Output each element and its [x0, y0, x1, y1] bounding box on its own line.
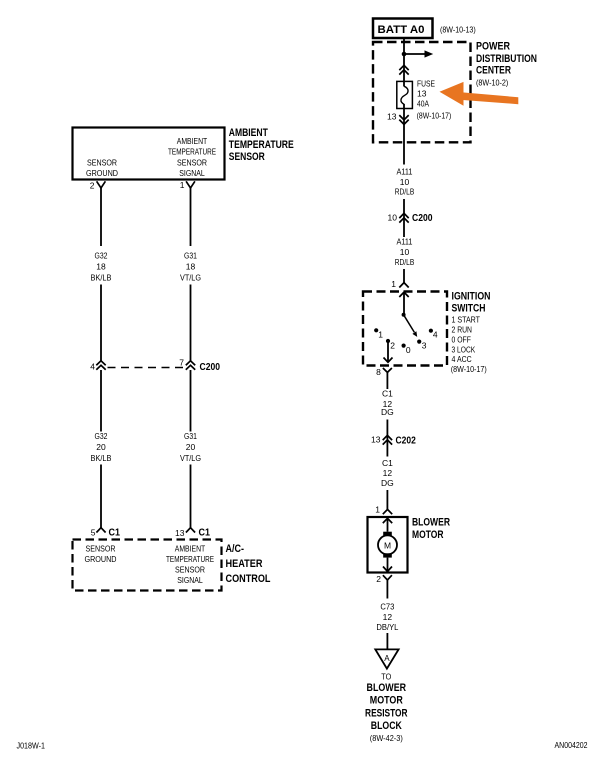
wire label C73 12 DB/YL: [376, 602, 398, 633]
wire G32 upper segment: [100, 188, 102, 246]
svg-text:CONTROL: CONTROL: [226, 573, 271, 585]
wire contact 2 to output with arrowhead: [384, 341, 393, 362]
svg-text:HEATER: HEATER: [226, 558, 263, 570]
svg-text:12: 12: [383, 612, 393, 622]
svg-text:AMBIENT: AMBIENT: [229, 127, 268, 139]
connector symbol pin 1: [186, 181, 195, 188]
svg-text:C73: C73: [380, 602, 394, 612]
connector chevron above blower box: [383, 509, 392, 514]
pin number 4: [90, 362, 95, 372]
node: switch pivot: [402, 313, 406, 317]
connector chevron above fuse: [399, 65, 408, 74]
svg-text:BK/LB: BK/LB: [91, 273, 112, 283]
pin number 13: [175, 528, 185, 538]
svg-text:SENSOR: SENSOR: [87, 158, 117, 168]
switch contact 2: [386, 339, 395, 351]
svg-text:BLOCK: BLOCK: [371, 720, 402, 732]
title: A/C- HEATER CONTROL: [226, 543, 271, 585]
connector chevron above ignition box: [399, 283, 408, 288]
svg-text:POWER: POWER: [476, 41, 510, 53]
svg-text:20: 20: [96, 442, 106, 452]
svg-text:2: 2: [390, 341, 395, 351]
svg-text:A: A: [384, 654, 390, 663]
pin label: SENSOR GROUND: [86, 158, 118, 179]
svg-text:2: 2: [90, 181, 95, 191]
wire label G31 20 VT/LG: [180, 431, 201, 463]
svg-text:1: 1: [375, 505, 380, 515]
svg-text:5: 5: [91, 528, 96, 538]
connector chevron below ignition box edge: [399, 292, 408, 297]
label: drawing number AN004202: [555, 740, 588, 750]
pin number 5: [91, 528, 96, 538]
wire label A111 10 RD/LB (lower): [395, 237, 415, 268]
wire G32 segment below C200: [100, 370, 102, 432]
switch contact 0: [402, 344, 411, 355]
switch contact 1: [374, 328, 383, 339]
svg-text:GROUND: GROUND: [85, 554, 117, 564]
pin number 8 (ignition output): [376, 367, 381, 377]
svg-text:SENSOR: SENSOR: [175, 565, 205, 575]
wire DG to C202: [386, 420, 388, 457]
svg-text:0 OFF: 0 OFF: [452, 334, 471, 344]
svg-text:10: 10: [400, 177, 410, 187]
wire branch arrow right: [404, 50, 433, 57]
svg-text:A111: A111: [397, 167, 413, 177]
pin number 7: [179, 358, 184, 368]
svg-text:RD/LB: RD/LB: [395, 257, 415, 267]
label C1 right: [199, 527, 211, 539]
svg-text:AMBIENT: AMBIENT: [175, 544, 206, 554]
svg-text:VT/LG: VT/LG: [180, 453, 201, 463]
svg-text:10: 10: [388, 213, 398, 223]
svg-text:TO: TO: [381, 672, 391, 682]
pin label: SENSOR GROUND (control): [85, 544, 117, 565]
svg-text:RESISTOR: RESISTOR: [365, 707, 408, 719]
fuse 13 40A: [397, 81, 413, 108]
svg-text:40A: 40A: [417, 99, 429, 109]
component dashed box: power distribution center: [373, 42, 471, 142]
label: switch positions list: [451, 315, 487, 374]
svg-text:BLOWER: BLOWER: [412, 517, 450, 529]
svg-text:2 RUN: 2 RUN: [452, 324, 473, 334]
svg-text:G31: G31: [184, 251, 197, 261]
connector C200 chevron right circuit: [399, 213, 408, 222]
svg-text:13: 13: [175, 528, 185, 538]
pin number 10: [388, 213, 398, 223]
connector chevron below fuse: [399, 115, 408, 124]
svg-text:13: 13: [417, 88, 427, 98]
node junction dot: [402, 52, 407, 57]
dashed connector line C200: [108, 367, 185, 369]
connector chevron inside blower box: [383, 518, 392, 523]
svg-text:DG: DG: [381, 407, 394, 417]
svg-text:CENTER: CENTER: [476, 65, 511, 77]
wire BATT to fuse: [403, 38, 405, 87]
svg-text:10: 10: [400, 247, 410, 257]
svg-text:1: 1: [180, 180, 185, 190]
wire DG to blower motor: [386, 490, 388, 509]
svg-text:FUSE: FUSE: [417, 79, 435, 89]
svg-text:A111: A111: [397, 237, 413, 247]
wire G31 segment below C200: [190, 370, 192, 432]
svg-text:G32: G32: [95, 251, 108, 261]
svg-text:4: 4: [433, 329, 438, 339]
svg-text:TEMPERATURE: TEMPERATURE: [166, 554, 214, 564]
wire ignition output to C1: [386, 372, 388, 389]
svg-text:SWITCH: SWITCH: [452, 302, 486, 314]
svg-text:20: 20: [186, 442, 196, 452]
svg-text:G32: G32: [95, 431, 108, 441]
title: IGNITION SWITCH: [452, 290, 491, 314]
wire motor to pin 2 with arrowhead: [383, 558, 392, 572]
svg-text:DG: DG: [381, 478, 394, 488]
motor M1 brush top: [383, 532, 392, 536]
wire G31 upper segment: [190, 188, 192, 246]
svg-text:TEMPERATURE: TEMPERATURE: [168, 147, 216, 157]
svg-text:VT/LG: VT/LG: [180, 273, 201, 283]
title: BLOWER MOTOR: [412, 517, 450, 542]
wire label A111 10 RD/LB (upper): [395, 167, 415, 197]
svg-text:RD/LB: RD/LB: [395, 187, 415, 197]
svg-text:GROUND: GROUND: [86, 168, 118, 178]
annotation: orange highlight arrow pointing at fuse: [440, 82, 519, 106]
svg-text:SIGNAL: SIGNAL: [179, 168, 205, 178]
label TO: [381, 672, 391, 682]
connector C1 chevron left: [96, 528, 105, 533]
label FUSE 13 40A (8W-10-17): [417, 79, 452, 121]
svg-text:(8W-10-17): (8W-10-17): [451, 364, 487, 374]
svg-text:18: 18: [96, 262, 106, 272]
label C200 left: [200, 361, 221, 373]
svg-text:G31: G31: [184, 431, 197, 441]
svg-text:C1: C1: [109, 527, 121, 539]
wire blower to C73: [386, 586, 388, 599]
wire RD/LB to C200: [403, 199, 405, 237]
connector symbol below ignition box: [383, 368, 392, 372]
svg-text:3: 3: [422, 341, 427, 351]
svg-text:C1: C1: [199, 527, 211, 539]
svg-text:8: 8: [376, 367, 381, 377]
wire G32 segment to AC control: [100, 465, 102, 528]
svg-text:AN004202: AN004202: [555, 740, 588, 750]
title: BLOWER MOTOR RESISTOR BLOCK: [365, 682, 408, 743]
svg-text:18: 18: [186, 262, 196, 272]
svg-text:1: 1: [378, 329, 383, 339]
svg-text:1: 1: [391, 279, 396, 289]
svg-text:M: M: [384, 540, 391, 550]
pin number 2: [90, 181, 95, 191]
svg-text:C1: C1: [382, 458, 393, 468]
wire G31 segment to AC control: [190, 465, 192, 528]
connector symbol pin 2: [97, 181, 106, 188]
label (8W-10-13): [440, 25, 476, 35]
svg-text:MOTOR: MOTOR: [412, 529, 444, 541]
wire label C1 12 DG (lower): [381, 458, 394, 488]
wire to motor brush: [387, 518, 389, 531]
svg-text:3 LOCK: 3 LOCK: [452, 344, 476, 354]
wire into switch: [403, 293, 405, 315]
svg-text:AMBIENT: AMBIENT: [177, 136, 208, 146]
component box: blower motor: [368, 517, 408, 573]
svg-text:J018W-1: J018W-1: [17, 741, 46, 751]
svg-text:13: 13: [371, 435, 381, 445]
svg-text:BATT A0: BATT A0: [378, 24, 425, 36]
svg-text:C202: C202: [396, 435, 416, 447]
svg-text:12: 12: [383, 468, 393, 478]
svg-text:C200: C200: [200, 361, 221, 373]
wire label G32 20 BK/LB: [91, 431, 112, 463]
pin number 1 (blower): [375, 505, 380, 515]
connector C202 chevron: [383, 435, 392, 444]
svg-text:SENSOR: SENSOR: [86, 544, 116, 554]
pin number 1 (ignition input): [391, 279, 396, 289]
wire label G31 18 VT/LG: [180, 251, 201, 283]
svg-text:4 ACC: 4 ACC: [452, 354, 472, 364]
wire G32 lower segment: [100, 285, 102, 362]
connector C200 chevron right: [186, 361, 195, 370]
node A: off-page triangle: [375, 649, 398, 668]
svg-text:DB/YL: DB/YL: [376, 622, 398, 632]
label C202: [396, 435, 416, 447]
svg-text:13: 13: [387, 112, 397, 122]
pin label: AMBIENT TEMPERATURE SENSOR SIGNAL (control): [166, 544, 214, 586]
svg-text:MOTOR: MOTOR: [370, 695, 403, 707]
switch wiper arm with arrowhead: [404, 315, 418, 337]
wire RD/LB to ignition switch: [403, 269, 405, 283]
svg-text:BK/LB: BK/LB: [91, 453, 112, 463]
svg-text:(8W-42-3): (8W-42-3): [370, 733, 403, 743]
label C1 left: [109, 527, 121, 539]
title: AMBIENT TEMPERATURE SENSOR: [229, 127, 294, 163]
wire label C1 12 DG (upper): [381, 388, 394, 417]
wire label G32 18 BK/LB: [91, 251, 112, 283]
svg-text:SIGNAL: SIGNAL: [177, 575, 203, 585]
switch contact 3: [417, 340, 427, 351]
connector C200 chevron left: [96, 361, 105, 370]
svg-text:IGNITION: IGNITION: [452, 290, 491, 302]
wire fuse to A111: [403, 104, 405, 165]
pin number 1: [180, 180, 185, 190]
label: sheet id J018W-1: [17, 741, 46, 751]
connector C1 chevron right: [186, 528, 195, 533]
svg-text:SENSOR: SENSOR: [229, 151, 265, 163]
svg-text:2: 2: [376, 574, 381, 584]
svg-text:(8W-10-2): (8W-10-2): [476, 78, 508, 88]
svg-text:A/C-: A/C-: [226, 543, 245, 555]
pin number 13 (C202): [371, 435, 381, 445]
pin number 2 (blower output): [376, 574, 381, 584]
pin label: AMBIENT TEMPERATURE SENSOR SIGNAL: [168, 136, 216, 178]
wire C73 to splice A: [386, 633, 388, 649]
component dashed box: A/C-heater control: [73, 540, 222, 591]
svg-text:C200: C200: [412, 212, 433, 224]
title: POWER DISTRIBUTION CENTER: [476, 41, 537, 88]
component box: BATT A0: [373, 19, 433, 39]
svg-text:SENSOR: SENSOR: [177, 158, 207, 168]
wire G31 lower segment: [190, 285, 192, 362]
svg-text:(8W-10-17): (8W-10-17): [417, 110, 452, 120]
svg-text:C1: C1: [382, 388, 393, 398]
svg-text:DISTRIBUTION: DISTRIBUTION: [476, 53, 537, 65]
component dashed box: ignition switch: [363, 292, 447, 366]
svg-text:BLOWER: BLOWER: [367, 682, 407, 694]
svg-text:4: 4: [90, 362, 95, 372]
motor M1 body: [378, 535, 397, 554]
svg-text:0: 0: [406, 345, 411, 355]
svg-text:TEMPERATURE: TEMPERATURE: [229, 139, 294, 151]
component box: ambient temperature sensor connector U-left: [73, 128, 225, 180]
svg-text:7: 7: [179, 358, 184, 368]
label C200 right circuit: [412, 212, 433, 224]
connector symbol below blower box: [383, 575, 392, 585]
switch contact 4: [429, 329, 438, 340]
motor M1 brush bottom: [383, 553, 392, 557]
svg-text:1 START: 1 START: [452, 315, 481, 325]
svg-text:(8W-10-13): (8W-10-13): [440, 25, 476, 35]
pin number 13 (fuse output): [387, 112, 397, 122]
